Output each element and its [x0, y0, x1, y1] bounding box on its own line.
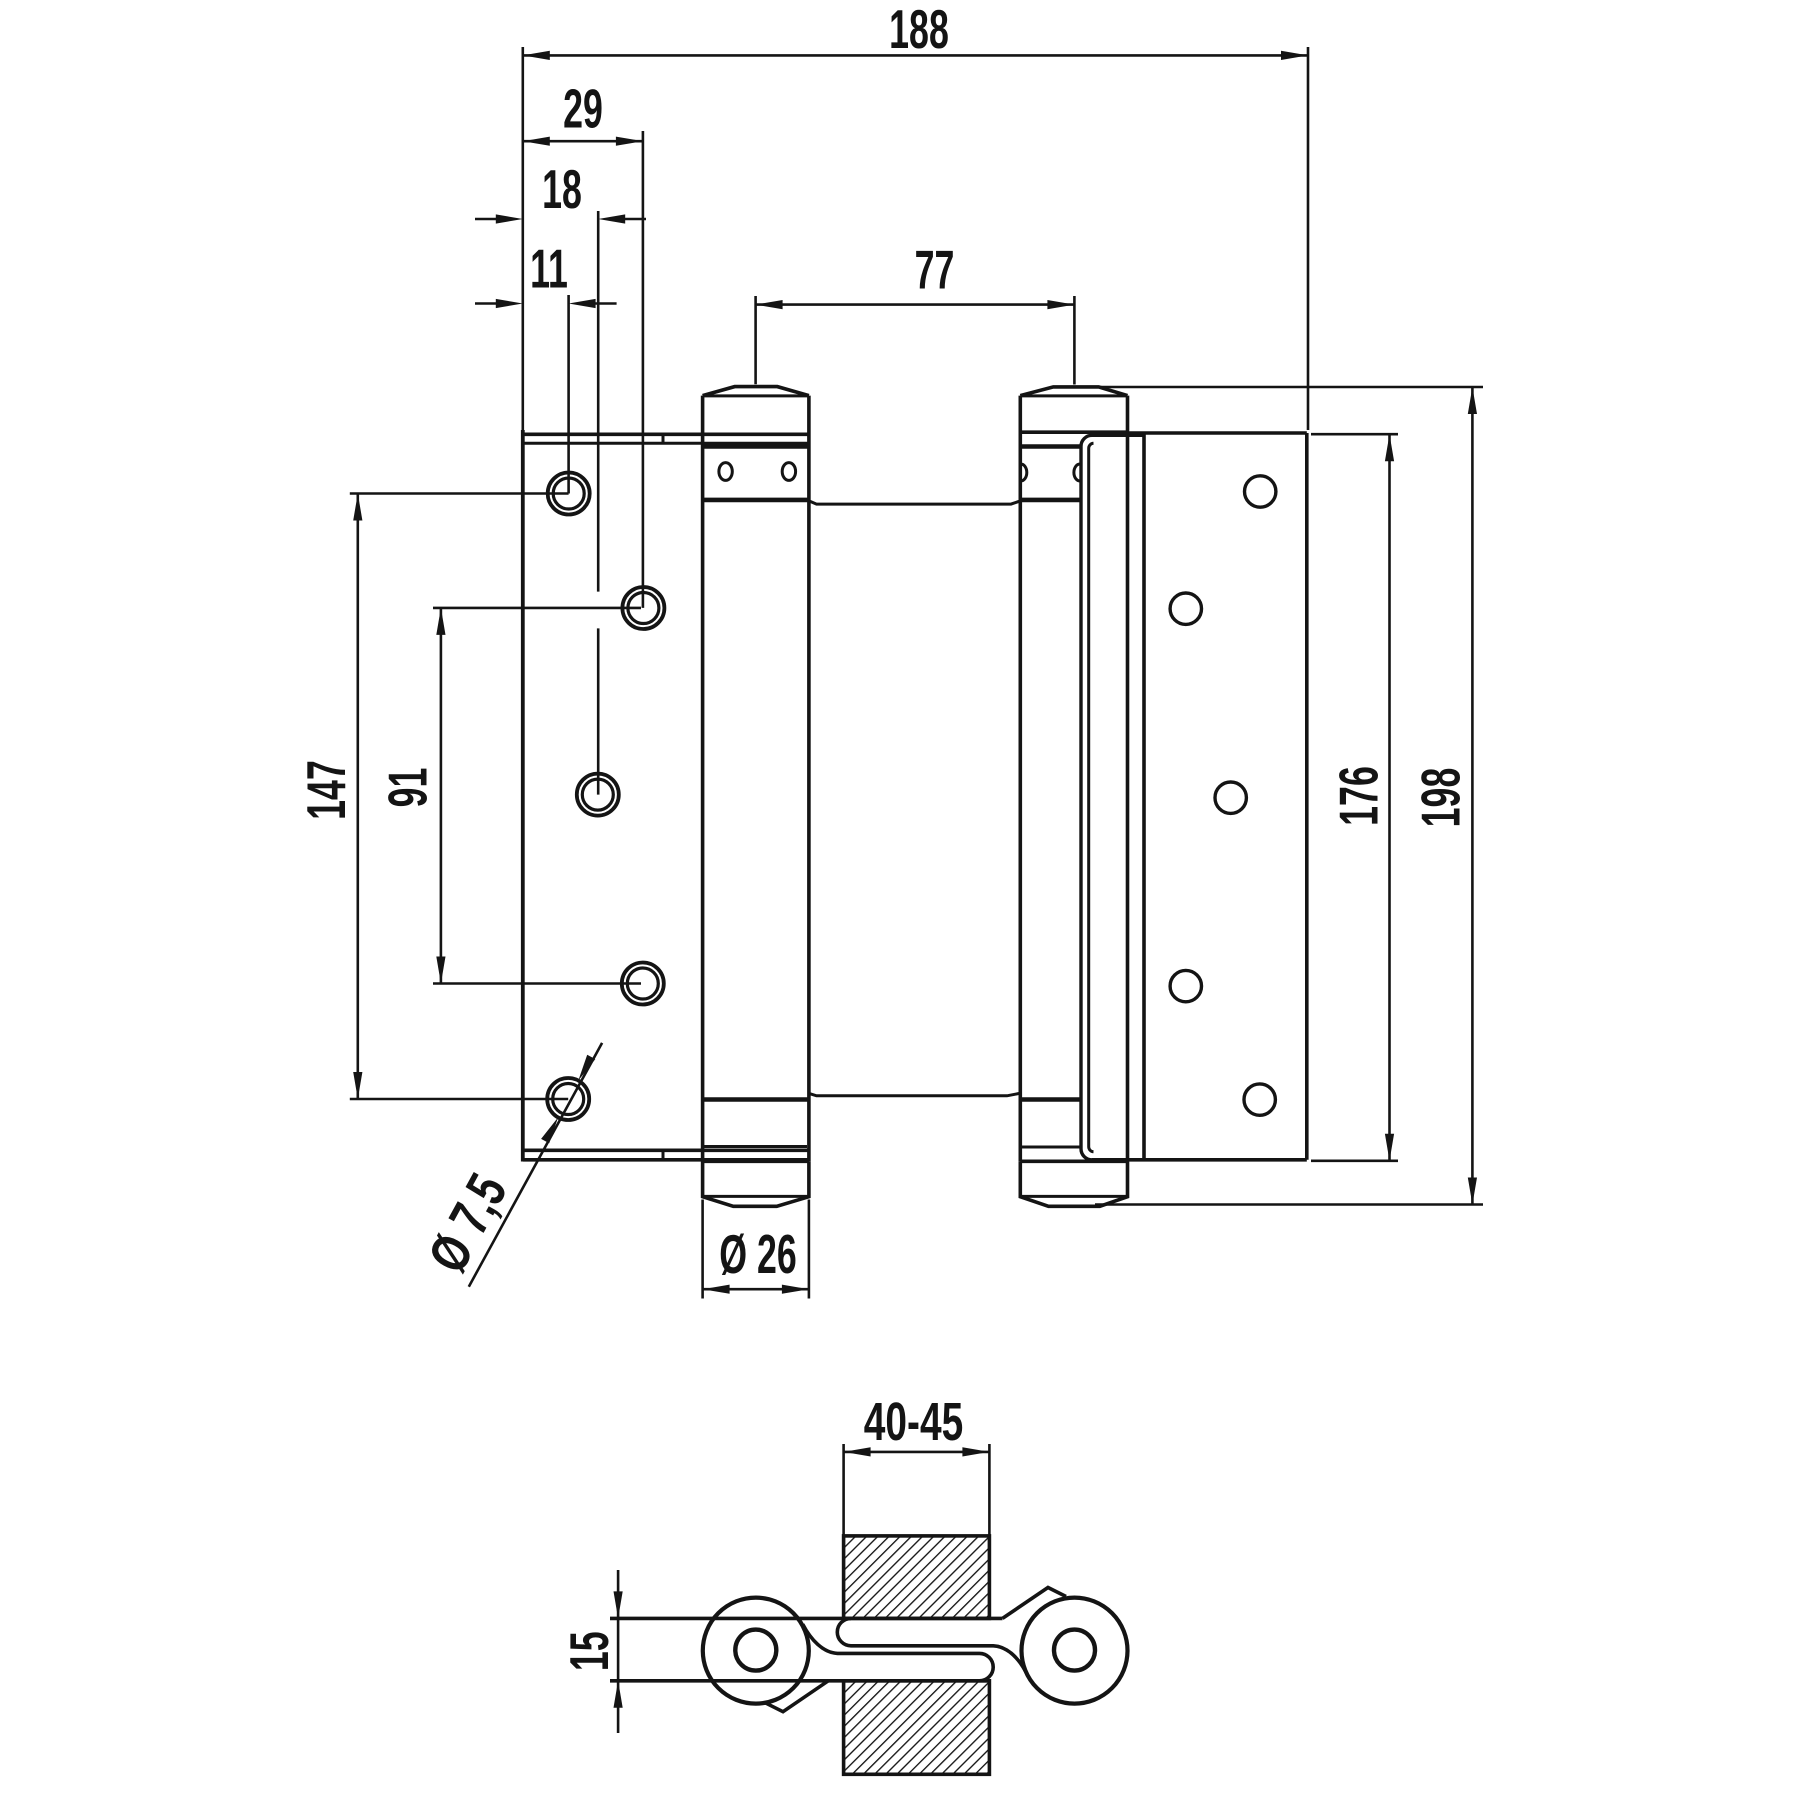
right barrel top retainer thick top line	[1020, 444, 1080, 449]
left knuckle pin circle	[735, 1630, 776, 1671]
hole H3 counterbored	[577, 774, 619, 816]
dimension 18 right arrow with tail	[623, 218, 646, 221]
hole H4 counterbored	[622, 963, 664, 1005]
dimension 188 right arrow	[1281, 51, 1308, 60]
dimension 188 left arrow	[523, 51, 550, 60]
left barrel top retainer thick bottom line	[703, 498, 809, 503]
hole3 centerline	[597, 628, 600, 794]
svg-text:77: 77	[915, 239, 955, 301]
svg-text:176: 176	[1328, 766, 1390, 826]
left barrel top cap base line	[703, 394, 809, 397]
left barrel top retainer thick top line	[703, 444, 809, 449]
svg-text:18: 18	[542, 158, 582, 220]
upper leaf strip diagonal to right knuckle tip	[1003, 1588, 1067, 1619]
right barrel bottom retainer thin line	[1020, 1146, 1080, 1149]
lower leaf strip top edge with end cap and S-curve	[803, 1624, 994, 1681]
dimension 91 top arrow	[436, 608, 445, 635]
right plate top edge	[1128, 431, 1307, 435]
extension line left of 188 and left plate edge	[521, 47, 524, 431]
right barrel bottom cap base line	[1020, 1195, 1127, 1198]
left barrel retainer screw hole left	[719, 463, 732, 481]
svg-text:29: 29	[563, 78, 603, 140]
dimension 188 line	[523, 54, 1308, 57]
extension line 11 right / hole1 centerline	[567, 295, 570, 494]
lower leaf strip diagonal to left knuckle tip	[765, 1681, 828, 1712]
extension line 91 top	[433, 607, 641, 610]
right plate right edge	[1305, 433, 1309, 1160]
door upper section hatched	[844, 1536, 990, 1619]
svg-text:198: 198	[1410, 768, 1472, 828]
dimension 198 bottom arrow	[1468, 1178, 1477, 1205]
extension line 147 bottom	[350, 1098, 568, 1101]
left knuckle outer circle	[703, 1598, 809, 1704]
dimension 198 line	[1471, 387, 1474, 1205]
right barrel retainer screw hole left half	[1021, 464, 1027, 481]
left plate top bar bend tick	[662, 434, 665, 443]
right plate hole B	[1170, 593, 1201, 624]
right plate hole C	[1215, 782, 1246, 813]
svg-text:Ø 26: Ø 26	[719, 1223, 796, 1285]
dimension diameter 26 right arrow	[782, 1285, 809, 1294]
dimension diameter 26 line	[703, 1288, 809, 1291]
dimension 147 bottom arrow	[353, 1072, 362, 1099]
left barrel right edge	[807, 396, 811, 1162]
dimension 29 line	[523, 140, 643, 143]
right knuckle pin circle	[1054, 1630, 1095, 1671]
right barrel bottom retainer thick line	[1020, 1097, 1080, 1102]
extension line 18 right upper segment	[597, 211, 600, 592]
right barrel retainer screw hole right half	[1074, 464, 1080, 481]
leader arrow diameter 7.5 lower	[541, 1117, 558, 1143]
right knuckle outer circle	[1022, 1598, 1128, 1704]
upper leaf strip bottom edge with end cap and S-curve	[837, 1618, 1028, 1677]
dimension 15 top arrow	[614, 1591, 623, 1618]
extension line 40-45 right	[988, 1444, 991, 1536]
dimension 147 line	[356, 494, 359, 1100]
lower leaf strip bottom line	[610, 1679, 989, 1683]
left plate bottom line	[523, 1149, 809, 1153]
extension line 176 top	[1311, 433, 1398, 436]
extension line 147 top	[350, 492, 569, 495]
dimension 15 line	[617, 1570, 620, 1733]
svg-text:188: 188	[889, 0, 949, 60]
middle plate bottom edge	[809, 1093, 1020, 1096]
extension line 91 bottom	[433, 982, 641, 985]
middle plate top edge	[809, 501, 1020, 504]
dimension 11 left arrow with tail	[475, 302, 498, 305]
right plate hole D	[1170, 970, 1201, 1001]
left plate bottom flange bar	[523, 1158, 809, 1162]
right barrel top cap	[1020, 387, 1127, 396]
dimension 15 bottom arrow	[614, 1681, 623, 1708]
hole H5 counterbored	[547, 1078, 589, 1120]
left barrel left edge	[701, 396, 705, 1162]
dimension 176 bottom arrow	[1385, 1134, 1394, 1161]
left barrel bottom cap	[703, 1161, 809, 1206]
leader arrow diameter 7.5 upper	[578, 1055, 595, 1081]
dimension 11 right arrow with tail	[594, 302, 617, 305]
hole H1 counterbored	[548, 473, 590, 515]
leader line diameter 7.5	[469, 1043, 602, 1287]
dimension 40-45 left arrow	[844, 1447, 871, 1456]
dimension 29 right arrow	[616, 137, 643, 146]
dimension 91 bottom arrow	[436, 957, 445, 984]
extension line 198 top	[1099, 386, 1483, 389]
svg-text:147: 147	[295, 760, 357, 820]
left plate bottom bar bend tick	[662, 1150, 665, 1160]
hole H2 counterbored	[622, 587, 664, 629]
right barrel right edge	[1126, 396, 1130, 1162]
svg-text:40-45: 40-45	[864, 1391, 963, 1452]
dimension 29 left arrow	[523, 137, 550, 146]
dimension 198 top arrow	[1468, 387, 1477, 414]
left barrel bottom cap top line	[703, 1160, 809, 1164]
dimension diameter 26 left arrow	[703, 1285, 730, 1294]
left barrel bottom retainer thin line	[703, 1145, 807, 1148]
left barrel top cap	[703, 387, 809, 396]
svg-text:91: 91	[376, 768, 438, 808]
upper leaf strip top line	[610, 1617, 1003, 1621]
right flange top edge	[1092, 434, 1144, 437]
extension line 29 right / hole2 centerline	[642, 131, 645, 608]
left barrel retainer screw hole right	[782, 463, 795, 481]
extension line 176 bottom	[1311, 1160, 1398, 1163]
dimension 77 right arrow	[1047, 300, 1074, 309]
dimension 40-45 right arrow	[962, 1447, 989, 1456]
svg-text:15: 15	[558, 1631, 620, 1671]
extension line diameter 26 right	[808, 1200, 811, 1299]
extension line diameter 26 left	[701, 1200, 704, 1299]
extension line 77 left (left barrel axis)	[754, 296, 757, 384]
dimension 91 line	[440, 608, 443, 984]
right barrel left edge	[1018, 396, 1022, 1162]
dimension 147 top arrow	[353, 494, 362, 521]
right plate left edge	[1142, 433, 1146, 1160]
extension line 77 right (right barrel axis)	[1073, 296, 1076, 385]
dimension 40-45 line	[844, 1451, 990, 1454]
right plate hole E	[1244, 1084, 1275, 1115]
dimension 77 line	[756, 303, 1075, 306]
right barrel bottom cap	[1020, 1161, 1127, 1206]
door lower section hatched	[844, 1681, 990, 1775]
right barrel bottom cap top line	[1020, 1160, 1127, 1164]
dimension 18 left arrow with tail	[475, 218, 498, 221]
left barrel bottom cap base line	[703, 1195, 809, 1198]
dimension 176 line	[1388, 434, 1391, 1161]
right barrel cap bottom line	[1020, 430, 1127, 434]
dimension 77 left arrow	[756, 300, 783, 309]
right barrel top cap base line	[1020, 394, 1127, 397]
right barrel top retainer thick bottom line	[1020, 498, 1080, 503]
left plate top flange bar	[523, 432, 809, 436]
extension line 198 bottom	[1095, 1203, 1483, 1206]
dimension 176 top arrow	[1385, 434, 1394, 461]
right plate bottom edge	[1092, 1158, 1307, 1162]
left barrel bottom retainer thick line	[703, 1097, 809, 1102]
right flange fold inner line	[1089, 443, 1094, 1152]
right plate hole A	[1245, 476, 1276, 507]
extension line right of 188	[1307, 47, 1310, 430]
right flange fold outer line	[1081, 435, 1092, 1160]
svg-text:11: 11	[530, 238, 568, 300]
extension line 40-45 left	[842, 1444, 845, 1536]
